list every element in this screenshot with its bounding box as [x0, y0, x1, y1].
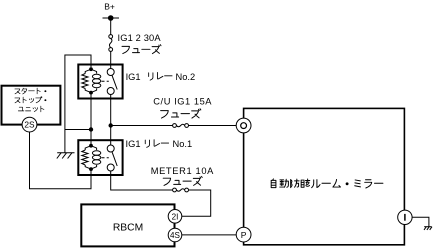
relay K1 coil top node — [89, 144, 93, 148]
node: C/U fuse branch junction — [109, 123, 113, 127]
relay K1 coil frame — [85, 146, 96, 169]
relay K2 coil frame — [85, 69, 96, 92]
svg-text:B+: B+ — [104, 1, 115, 11]
relay K2 coil windings — [92, 74, 100, 87]
relay K1 mechanical link (dashed) — [102, 157, 109, 159]
relay K2 resistor zigzag — [82, 74, 88, 89]
wire: B+ down to fuse F1 — [110, 18, 112, 35]
auto-dimming room mirror box — [244, 108, 405, 244]
relay K2 switch contact top — [107, 69, 114, 76]
relay K2 switch blade — [112, 75, 117, 89]
relay K1 switch contact bottom — [107, 164, 114, 171]
label: start stop unit line 1 (katakana) — [15, 88, 46, 94]
relay K1 switch contact top — [107, 145, 114, 152]
terminal 4S circle — [168, 228, 182, 242]
wire: relay K2 coil bottom down to relay K1 coil top — [90, 93, 92, 146]
svg-text:2I: 2I — [172, 212, 179, 221]
svg-text:4S: 4S — [170, 231, 181, 240]
relay K1 resistor zigzag — [82, 150, 88, 165]
svg-text:IG1 2 30A: IG1 2 30A — [118, 33, 162, 43]
fuse F3 METER1 10A — [173, 188, 189, 192]
wire: branch to C/U IG1 fuse — [111, 125, 173, 127]
terminal 2I circle — [168, 210, 182, 224]
relay IG1 No.1 (K1) box — [78, 140, 122, 175]
label: fuse (katakana) for F1 — [122, 45, 161, 54]
node: B+ junction dot — [108, 15, 114, 21]
terminal O circle — [236, 118, 251, 133]
label: auto anti-glare room mirror (kanji+katakana) — [271, 179, 383, 188]
wire: fuse F3 right, down, to RBCM terminal 2I — [182, 190, 211, 216]
relay K1 switch blade — [112, 152, 117, 166]
svg-text:RBCM: RBCM — [113, 223, 143, 234]
fuse F2 C/U IG1 15A — [173, 124, 189, 128]
wire: terminal I to right ground — [412, 217, 429, 226]
relay K2 coil top node — [89, 67, 93, 71]
terminal I circle — [398, 210, 412, 224]
svg-text:C/U IG1 15A: C/U IG1 15A — [153, 96, 212, 106]
svg-text:P: P — [241, 230, 247, 240]
node: coil chain junction — [89, 127, 93, 131]
svg-text:IG1: IG1 — [126, 72, 141, 82]
ground G1 (left) — [57, 153, 75, 159]
fuse F1 IG1 2 30A (vertical) — [109, 35, 113, 52]
relay K2 switch contact bottom — [107, 88, 114, 95]
svg-text:No.1: No.1 — [173, 139, 193, 149]
battery feed terminal B+ bar — [103, 17, 120, 19]
wire: fuse F1 to relay K2 switch — [110, 51, 112, 68]
label: start stop unit line 2 (katakana) — [15, 97, 46, 103]
svg-text:No.2: No.2 — [176, 72, 196, 82]
wire: fuse F2 to mirror terminal O — [189, 125, 237, 127]
label: fuse (katakana) for F3 — [163, 176, 202, 185]
wire: relay K2 coil top loop to ground — [65, 55, 91, 153]
svg-text:2S: 2S — [24, 120, 35, 130]
terminal P circle — [236, 227, 251, 242]
terminal 2S circle — [22, 117, 37, 132]
wire: RBCM 4S to mirror terminal P — [182, 234, 236, 236]
start-stop unit box — [2, 86, 61, 125]
relay K1 coil bottom node — [89, 167, 93, 171]
ground G2 (right, small) — [424, 227, 432, 230]
wire: relay K2 switch bottom down to relay K1 switch top — [110, 95, 112, 146]
wire: relay K1 switch bottom to METER1 fuse — [111, 171, 173, 190]
relay K1 coil windings — [92, 151, 100, 164]
relay K2 coil bottom node — [89, 91, 93, 95]
relay K2 mechanical link (dashed) — [102, 80, 109, 82]
wire: ground branch to coil chain node — [65, 129, 91, 131]
relay IG1 No.2 (K2) box — [78, 65, 122, 99]
label: start stop unit line 3 (katakana) — [18, 106, 44, 112]
RBCM box — [81, 204, 174, 246]
svg-text:IG1: IG1 — [126, 139, 141, 149]
wire: terminal 2S down and over to relay K1 coil bottom — [30, 132, 92, 189]
label: fuse (katakana) for F2 — [161, 109, 201, 118]
svg-text:METER1 10A: METER1 10A — [151, 166, 214, 176]
